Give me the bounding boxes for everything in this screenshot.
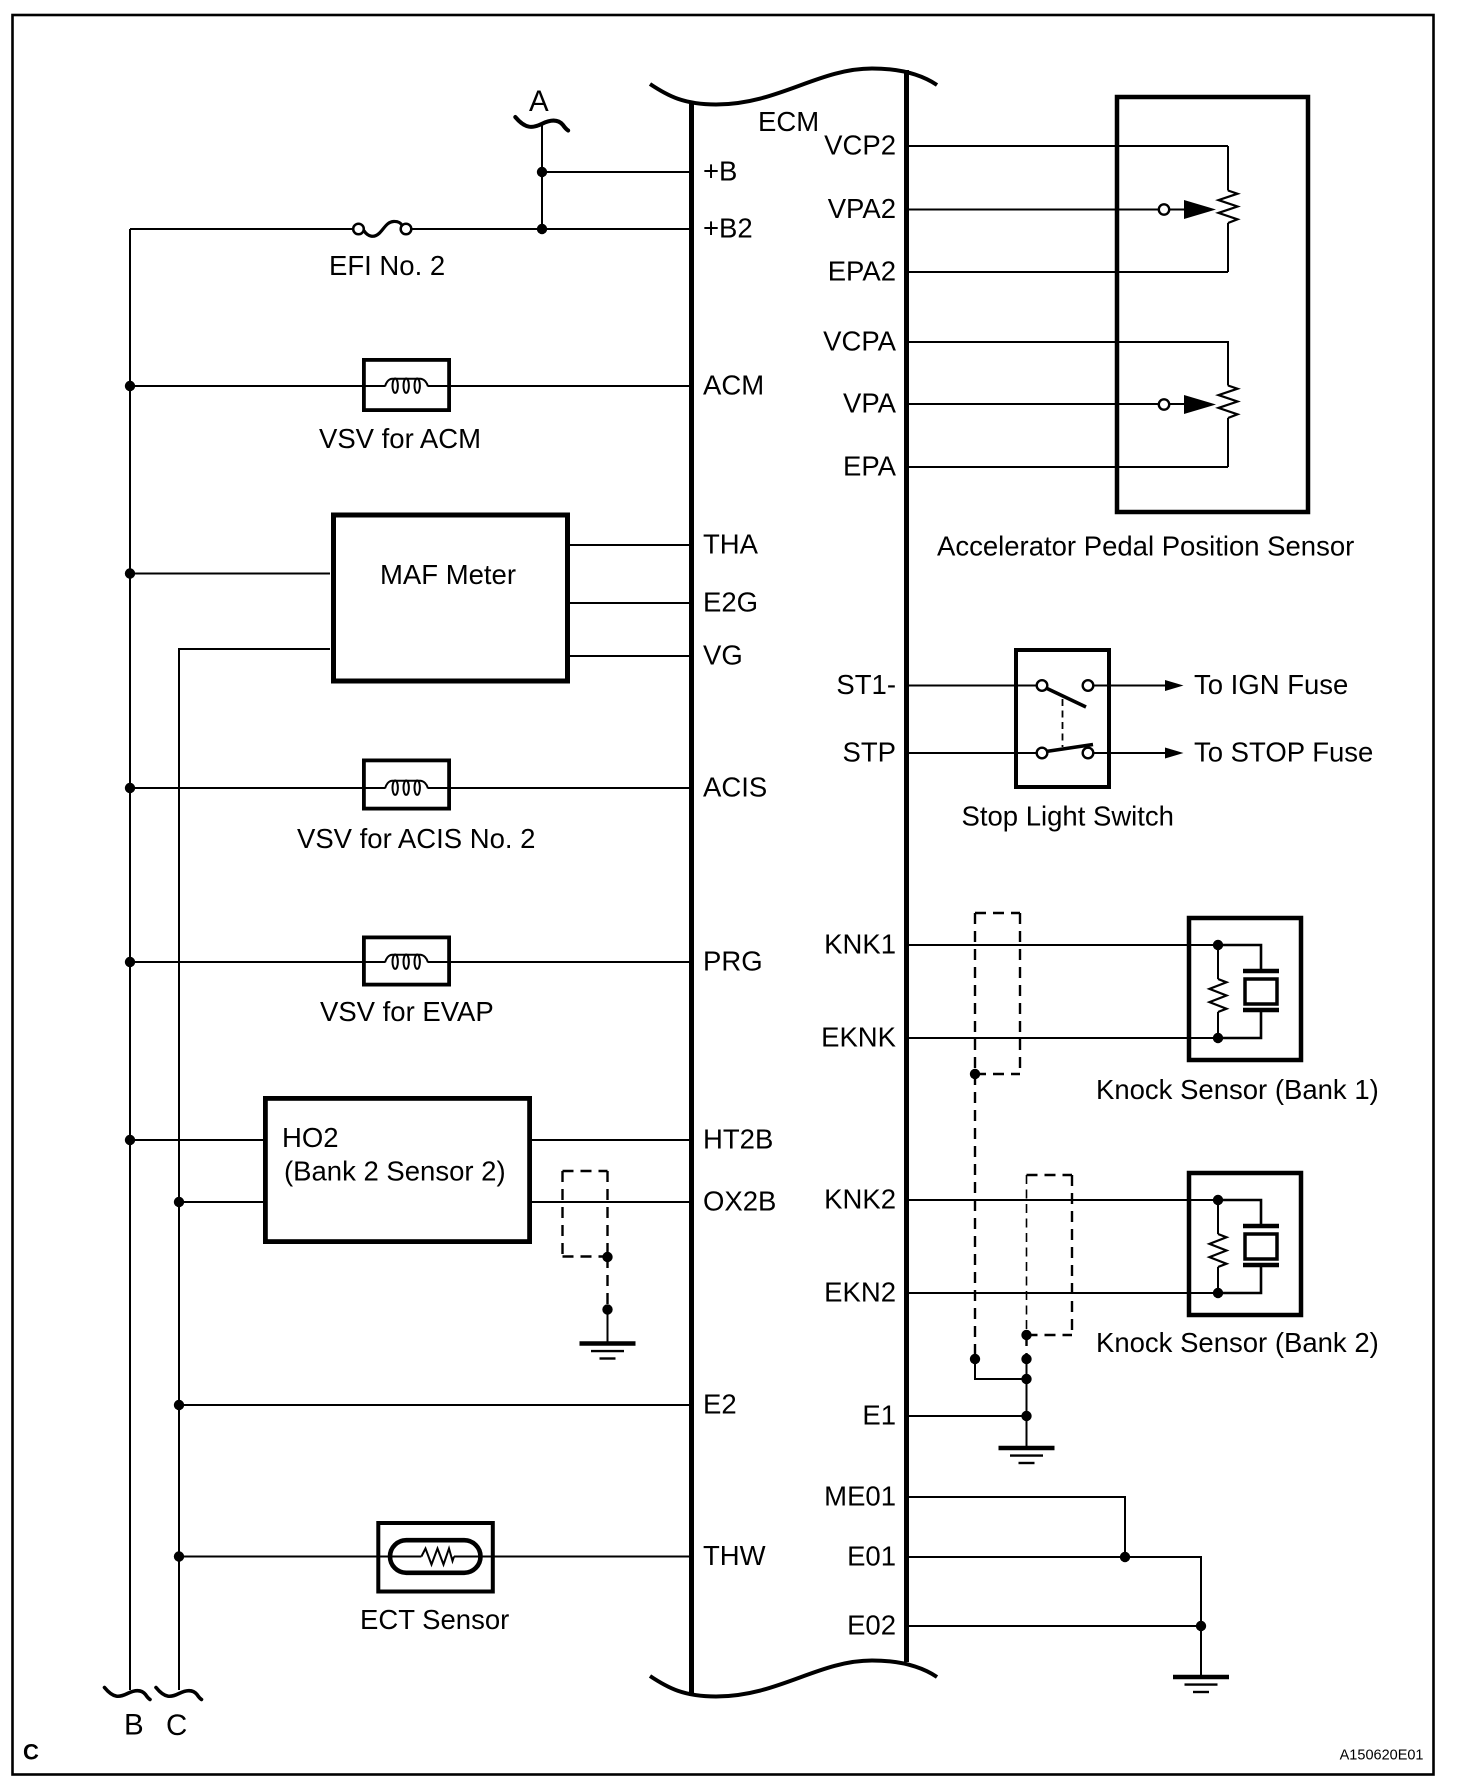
- svg-text:E01: E01: [847, 1541, 896, 1572]
- wire EPA: [906, 466, 1228, 468]
- svg-text:(Bank 2 Sensor 2): (Bank 2 Sensor 2): [284, 1156, 506, 1187]
- node A: [515, 117, 568, 130]
- ground (E01/E02): [1173, 1677, 1229, 1692]
- wire VCP2: [906, 145, 1228, 147]
- wire OX2B: [532, 1201, 691, 1203]
- ECM top torn edge: [650, 69, 937, 105]
- wire to STOP fuse: [1093, 752, 1167, 754]
- wire KNK1: [906, 944, 1218, 946]
- svg-text:ECT Sensor: ECT Sensor: [360, 1604, 509, 1635]
- wire ME01: [906, 1497, 1125, 1557]
- potentiometer VPA: [1159, 341, 1238, 467]
- VSV for EVAP: [320, 937, 494, 1027]
- wire HT2B left: [130, 1139, 263, 1141]
- wire ACM: [130, 385, 385, 387]
- svg-text:KNK2: KNK2: [824, 1184, 896, 1215]
- ECM body left edge: [689, 103, 694, 1696]
- svg-text:OX2B: OX2B: [703, 1186, 776, 1217]
- svg-text:E02: E02: [847, 1610, 896, 1641]
- Knock Sensor (Bank 2): [1096, 1173, 1379, 1358]
- Stop Light Switch: [962, 650, 1174, 832]
- wire PRG: [130, 961, 385, 963]
- svg-text:ACM: ACM: [703, 370, 764, 401]
- wire VPA2: [906, 209, 1184, 211]
- node C: [156, 1688, 202, 1700]
- svg-text:VCP2: VCP2: [824, 130, 896, 161]
- svg-text:VPA: VPA: [843, 388, 897, 419]
- wire to IGN fuse: [1093, 685, 1167, 687]
- node B: [105, 1688, 151, 1700]
- wire +B2 left segment: [130, 228, 353, 230]
- svg-text:MAF Meter: MAF Meter: [380, 559, 516, 590]
- svg-text:EPA: EPA: [843, 451, 897, 482]
- svg-text:+B2: +B2: [703, 213, 753, 244]
- wire from A down to +B2: [541, 124, 543, 229]
- svg-text:EPA2: EPA2: [828, 256, 896, 287]
- wire +B: [542, 171, 691, 173]
- wire E1 to ground: [1026, 1416, 1028, 1448]
- ground (OX2B shield): [580, 1344, 636, 1359]
- Accelerator Pedal Position Sensor: [937, 97, 1354, 562]
- svg-text:B: B: [124, 1709, 144, 1742]
- OX2B shield: [563, 1171, 613, 1344]
- svg-text:ACIS: ACIS: [703, 772, 767, 803]
- wire EKNK: [906, 1037, 1218, 1039]
- svg-text:Knock Sensor (Bank 1): Knock Sensor (Bank 1): [1096, 1074, 1379, 1105]
- junction on A wire at +B2: [537, 224, 547, 234]
- svg-text:VSV for ACM: VSV for ACM: [319, 423, 481, 454]
- ECM bottom torn edge: [650, 1661, 937, 1697]
- ground (E1): [999, 1448, 1055, 1463]
- wire E1: [906, 1415, 1027, 1417]
- svg-text:KNK1: KNK1: [824, 929, 896, 960]
- ECT Sensor thermistor: [360, 1523, 509, 1635]
- wire E02: [906, 1626, 1201, 1677]
- KNK2 shield: [1021, 1175, 1072, 1416]
- wire OX2B left: [179, 1201, 263, 1203]
- svg-text:C: C: [166, 1709, 187, 1742]
- wire ACIS: [130, 787, 385, 789]
- svg-text:A: A: [529, 85, 549, 118]
- wire EPA2: [906, 271, 1228, 273]
- svg-text:Knock Sensor (Bank 2): Knock Sensor (Bank 2): [1096, 1327, 1379, 1358]
- svg-text:VG: VG: [703, 640, 743, 671]
- fuse EFI No. 2: [329, 221, 445, 281]
- ECM body right edge: [904, 70, 909, 1662]
- svg-text:VCPA: VCPA: [823, 326, 897, 357]
- wire E2: [179, 1404, 691, 1406]
- wire +B2 right segment: [411, 228, 691, 230]
- svg-text:C: C: [23, 1740, 39, 1765]
- MAF Meter U1: [334, 515, 568, 681]
- svg-text:E2G: E2G: [703, 587, 758, 618]
- svg-text:EKN2: EKN2: [824, 1277, 896, 1308]
- wire VG: [566, 655, 691, 657]
- svg-text:ME01: ME01: [824, 1481, 896, 1512]
- svg-text:Stop Light Switch: Stop Light Switch: [962, 801, 1174, 832]
- VSV for ACIS No. 2: [297, 760, 535, 854]
- svg-text:EFI No. 2: EFI No. 2: [329, 250, 445, 281]
- wire THA: [566, 544, 691, 546]
- junction on A wire at +B: [537, 167, 547, 177]
- svg-text:EKNK: EKNK: [821, 1022, 897, 1053]
- svg-text:A150620E01: A150620E01: [1340, 1748, 1424, 1764]
- Knock Sensor (Bank 1): [1096, 918, 1379, 1105]
- svg-text:+B: +B: [703, 156, 737, 187]
- svg-text:VPA2: VPA2: [828, 193, 896, 224]
- svg-text:To IGN Fuse: To IGN Fuse: [1194, 669, 1348, 700]
- svg-text:VSV for EVAP: VSV for EVAP: [320, 996, 494, 1027]
- svg-text:To STOP Fuse: To STOP Fuse: [1194, 737, 1373, 768]
- potentiometer VPA2: [1159, 146, 1238, 272]
- svg-text:ECM: ECM: [758, 106, 819, 137]
- left bus wire C (x=179): [179, 649, 330, 1690]
- svg-text:VSV for ACIS No. 2: VSV for ACIS No. 2: [297, 823, 535, 854]
- wire MAF upper left: [130, 573, 330, 575]
- HO2 sensor (Bank 2 Sensor 2): [265, 1098, 529, 1241]
- wire VCPA: [906, 341, 1228, 343]
- left bus wire B (x=130): [129, 229, 131, 1690]
- svg-text:E2: E2: [703, 1389, 737, 1420]
- wire HT2B: [532, 1139, 691, 1141]
- wire E2G: [566, 602, 691, 604]
- wire THW: [179, 1556, 421, 1558]
- svg-text:E1: E1: [862, 1400, 896, 1431]
- svg-text:HO2: HO2: [282, 1122, 339, 1153]
- svg-text:Accelerator Pedal Position Sen: Accelerator Pedal Position Sensor: [937, 531, 1354, 562]
- svg-text:PRG: PRG: [703, 946, 763, 977]
- svg-text:THW: THW: [703, 1540, 766, 1571]
- wire EKN2: [906, 1292, 1218, 1294]
- wire E01: [906, 1557, 1201, 1626]
- wire VPA: [906, 403, 1184, 405]
- KNK1 shield: [970, 913, 1027, 1379]
- svg-text:ST1-: ST1-: [836, 669, 896, 700]
- svg-text:STP: STP: [843, 737, 896, 768]
- wire STP: [906, 752, 1037, 754]
- wire KNK2: [906, 1199, 1218, 1201]
- svg-text:THA: THA: [703, 529, 759, 560]
- svg-text:HT2B: HT2B: [703, 1124, 773, 1155]
- VSV for ACM: [319, 360, 481, 454]
- wire ST1-: [906, 685, 1037, 687]
